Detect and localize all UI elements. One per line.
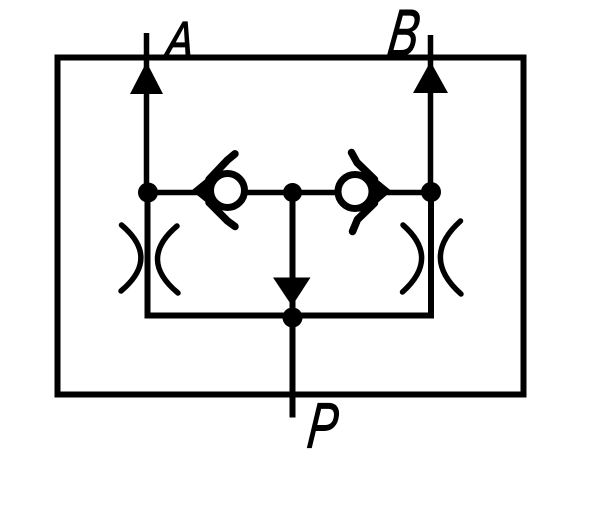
junction node A branch xyxy=(138,183,158,203)
check valve CV1 upper seat arm xyxy=(209,154,235,180)
port B arrow xyxy=(413,62,448,94)
junction node B branch xyxy=(421,182,441,202)
svg-text:A: A xyxy=(161,11,196,68)
orifice O2 right arc xyxy=(440,221,461,294)
port B line xyxy=(428,35,434,193)
orifice O1 right arc xyxy=(157,226,178,293)
check valve CV1 seat wedge xyxy=(192,173,214,208)
right branch wire (B to bottom rail) xyxy=(428,192,434,316)
orifice O1 left arc xyxy=(121,225,141,291)
check valve CV1 lower seat arm xyxy=(209,203,235,227)
port A line xyxy=(144,33,150,193)
check valve CV1 circle xyxy=(211,174,245,208)
check valve CV2 seat wedge xyxy=(370,174,392,210)
left branch wire (A to bottom rail) xyxy=(145,193,151,316)
middle rail wire A-B xyxy=(148,190,431,196)
check valve CV2 circle xyxy=(338,175,372,209)
down arrow to P xyxy=(273,278,311,307)
junction node center top xyxy=(283,183,302,202)
orifice O2 left arc xyxy=(403,225,422,292)
valve body enclosure xyxy=(58,58,524,395)
center wire (middle rail to port P) xyxy=(290,193,296,418)
port A arrow xyxy=(130,62,163,94)
svg-text:P: P xyxy=(305,390,342,462)
junction node P xyxy=(283,308,303,328)
bottom rail wire xyxy=(145,313,435,319)
check valve CV2 upper seat arm xyxy=(352,153,375,180)
check valve CV2 lower seat arm xyxy=(353,203,375,232)
